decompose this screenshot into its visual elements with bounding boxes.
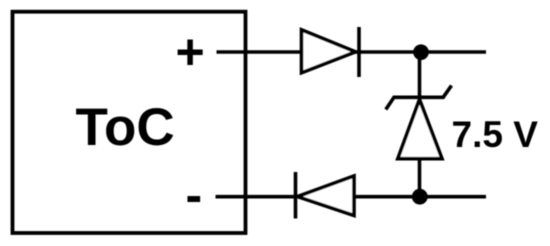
block U1 (ToC box) <box>13 12 246 233</box>
wire: diode D1 cathode to node A <box>355 50 421 54</box>
wire: node A to right end (top rail) <box>421 50 486 54</box>
wire: + terminal to diode D1 anode <box>217 50 302 54</box>
svg-text:+: + <box>176 24 205 80</box>
diode D1 cathode bar <box>357 27 361 77</box>
svg-text:ToC: ToC <box>76 98 175 157</box>
diode D2 cathode bar <box>294 172 298 219</box>
wire: - terminal to diode D2 cathode <box>216 195 296 199</box>
zener D3 cathode bar (Z-shaped) <box>386 86 452 110</box>
diode D1 (triangle, pointing right) <box>302 30 356 73</box>
diode D2 (triangle, pointing left) <box>298 176 355 216</box>
wire: node A down to zener D3 cathode <box>418 52 422 99</box>
svg-text:-: - <box>186 167 203 223</box>
wire: zener D3 anode down to node B <box>418 159 422 197</box>
wire: node B to right end (bottom rail) <box>420 195 486 199</box>
svg-text:7.5 V: 7.5 V <box>452 114 539 155</box>
node B (junction dot) <box>412 189 428 205</box>
wire: diode D2 anode to node B <box>354 195 420 199</box>
zener D3 triangle (pointing up) <box>398 100 442 159</box>
node A (junction dot) <box>413 44 429 60</box>
